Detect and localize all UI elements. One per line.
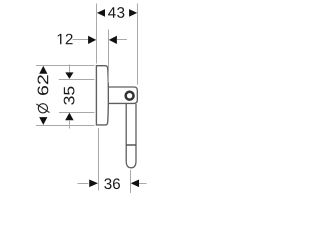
dia62 bottom extension line [36,125,95,127]
dim 43 text [108,7,124,18]
dim 36 left tail [78,183,89,185]
dia62 bottom arrow [39,117,47,125]
dia symbol [36,104,49,113]
dim 36 text [104,178,120,189]
dim 36 left extension line [98,128,100,191]
dim 35 text [64,87,75,105]
arm (horizontal bracket) [108,87,137,103]
dim 43 left arrow [97,9,105,17]
dia62 text [38,75,49,95]
dim 35 bottom tail [69,120,71,129]
dim 43 right arrow [129,9,137,17]
dim 35 top extension line [59,79,95,81]
dim 36 right extension line [130,170,132,193]
hanger rod [126,104,136,168]
dim 12 right tail [117,39,127,41]
extension line right (arm front) [137,4,139,85]
dim 35 bottom extension line [59,112,95,114]
dim 12 leader [73,39,89,41]
wall plate (escutcheon, side view) [96,66,108,125]
dim 36 right arrow [131,180,139,188]
screw ring on arm [126,92,134,100]
dim 36 right tail [139,183,147,185]
extension line left (wall face) [96,4,98,64]
dim 12 text [58,34,73,45]
dia62 top extension line [36,65,95,67]
dim 35 bottom arrow [65,113,73,121]
dim 12 left arrow [88,36,96,44]
dim 36 left arrow [89,180,98,188]
extension line plate depth [108,30,110,83]
dim 35 top arrow [65,72,73,79]
dim 35 top tail [69,65,71,73]
dia62 top arrow [39,66,47,74]
dim 12 right arrow [109,36,117,44]
rod seam tick [126,144,136,146]
